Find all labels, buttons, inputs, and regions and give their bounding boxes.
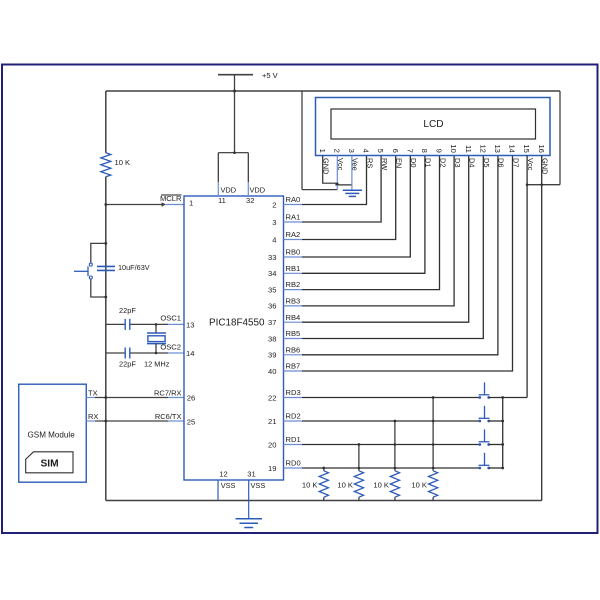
svg-text:D0: D0 (409, 158, 418, 167)
svg-text:12 MHz: 12 MHz (144, 360, 170, 369)
svg-text:RB7: RB7 (286, 362, 301, 371)
svg-text:+5 V: +5 V (262, 71, 278, 80)
svg-text:VDD: VDD (250, 185, 266, 194)
svg-text:9: 9 (435, 149, 444, 153)
svg-text:35: 35 (268, 285, 276, 294)
svg-text:RC7/RX: RC7/RX (154, 388, 182, 397)
svg-text:12: 12 (478, 144, 487, 152)
svg-text:RB5: RB5 (286, 329, 301, 338)
svg-text:D7: D7 (511, 158, 520, 167)
svg-text:SIM: SIM (40, 459, 58, 470)
svg-text:7: 7 (405, 149, 414, 153)
svg-text:13: 13 (493, 144, 502, 152)
svg-text:RB0: RB0 (286, 248, 301, 257)
svg-text:10 K: 10 K (302, 480, 318, 489)
svg-text:22pF: 22pF (119, 306, 136, 315)
svg-text:38: 38 (268, 334, 276, 343)
svg-text:D1: D1 (424, 158, 433, 167)
svg-text:RB6: RB6 (286, 345, 301, 354)
svg-text:26: 26 (187, 393, 195, 402)
svg-text:LCD: LCD (423, 119, 443, 130)
svg-text:15: 15 (522, 144, 531, 152)
svg-text:D4: D4 (468, 158, 477, 167)
svg-text:5: 5 (376, 149, 385, 153)
svg-text:RB2: RB2 (286, 280, 301, 289)
svg-text:RD2: RD2 (286, 412, 301, 421)
svg-text:12: 12 (219, 469, 227, 478)
svg-text:4: 4 (272, 235, 276, 244)
svg-text:RD1: RD1 (286, 435, 301, 444)
svg-text:TX: TX (88, 388, 98, 397)
svg-text:21: 21 (268, 417, 276, 426)
svg-text:3: 3 (347, 149, 356, 153)
svg-text:31: 31 (247, 469, 255, 478)
svg-text:D2: D2 (438, 158, 447, 167)
svg-text:2: 2 (272, 200, 276, 209)
svg-text:32: 32 (246, 196, 254, 205)
svg-text:10 K: 10 K (337, 480, 353, 489)
svg-text:16: 16 (537, 144, 546, 152)
svg-text:D6: D6 (497, 158, 506, 167)
svg-text:34: 34 (268, 269, 276, 278)
svg-text:22: 22 (268, 393, 276, 402)
svg-text:6: 6 (391, 149, 400, 153)
svg-text:OSC1: OSC1 (160, 314, 181, 323)
svg-text:RA0: RA0 (286, 195, 301, 204)
svg-text:4: 4 (362, 149, 371, 153)
svg-text:RD3: RD3 (286, 388, 301, 397)
svg-text:RD0: RD0 (286, 459, 301, 468)
svg-text:20: 20 (268, 440, 276, 449)
svg-text:37: 37 (268, 318, 276, 327)
svg-text:RA2: RA2 (286, 230, 301, 239)
svg-text:39: 39 (268, 351, 276, 360)
svg-text:RS: RS (365, 158, 374, 168)
svg-text:11: 11 (218, 196, 226, 205)
svg-text:PIC18F4550: PIC18F4550 (209, 318, 265, 329)
svg-text:D3: D3 (453, 158, 462, 167)
svg-text:1: 1 (189, 199, 193, 208)
svg-text:25: 25 (187, 418, 195, 427)
svg-text:22pF: 22pF (119, 360, 136, 369)
svg-text:EN: EN (395, 158, 404, 168)
svg-text:RB3: RB3 (286, 297, 301, 306)
svg-text:RC6/TX: RC6/TX (155, 412, 182, 421)
svg-text:RB1: RB1 (286, 264, 301, 273)
svg-text:40: 40 (268, 367, 276, 376)
svg-text:10 K: 10 K (115, 158, 131, 167)
svg-text:10uF/63V: 10uF/63V (118, 263, 150, 272)
svg-text:1: 1 (318, 149, 327, 153)
svg-text:14: 14 (186, 349, 194, 358)
svg-text:3: 3 (272, 218, 276, 227)
svg-text:D5: D5 (482, 158, 491, 167)
svg-text:VSS: VSS (251, 481, 266, 490)
svg-text:36: 36 (268, 302, 276, 311)
svg-text:RA1: RA1 (286, 213, 301, 222)
svg-text:8: 8 (420, 149, 429, 153)
svg-text:10 K: 10 K (373, 480, 389, 489)
svg-text:OSC2: OSC2 (160, 342, 181, 351)
svg-text:19: 19 (268, 464, 276, 473)
svg-text:10: 10 (449, 144, 458, 152)
svg-text:RB4: RB4 (286, 313, 301, 322)
svg-text:VSS: VSS (221, 481, 236, 490)
svg-text:11: 11 (464, 145, 473, 153)
svg-text:33: 33 (268, 253, 276, 262)
svg-text:GSM Module: GSM Module (28, 430, 76, 439)
svg-text:14: 14 (508, 144, 517, 152)
svg-text:13: 13 (186, 320, 194, 329)
svg-text:VDD: VDD (221, 185, 237, 194)
svg-text:RW: RW (380, 158, 389, 170)
svg-text:10 K: 10 K (411, 480, 427, 489)
svg-text:2: 2 (332, 149, 341, 153)
svg-text:RX: RX (88, 412, 98, 421)
